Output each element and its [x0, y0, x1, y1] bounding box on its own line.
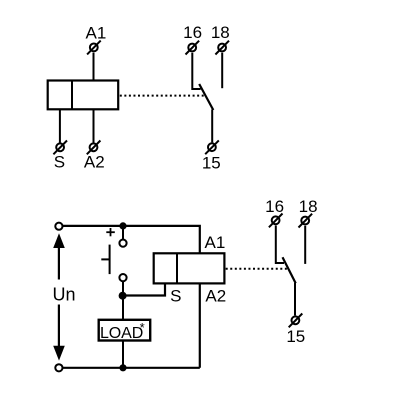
Un measurement line (upper + lower segments) [58, 239, 60, 280]
coil box divider [71, 81, 73, 110]
supply terminal (bottom-left, open circle) [55, 364, 62, 371]
supply terminal (top-left, open circle) [55, 223, 62, 230]
terminal A2 [87, 141, 101, 155]
junction dot (top rail) [119, 222, 126, 229]
relay coil box (bottom) [154, 253, 225, 283]
switch S lower contact [119, 274, 126, 281]
svg-text:LOAD: LOAD [100, 325, 143, 342]
wire A2 from coil box [93, 109, 95, 142]
wire 16 with tick (top) [192, 53, 200, 89]
wire 18 (top) [221, 53, 223, 88]
terminal 15 (top) [205, 140, 219, 154]
svg-text:A2: A2 [205, 287, 226, 306]
top rail wire [63, 226, 200, 253]
wire LOAD to bottom rail [122, 341, 124, 368]
terminal 16 (top) [186, 41, 200, 55]
terminal 18 (top) [215, 41, 229, 55]
wire S from coil box [59, 109, 61, 142]
contact blade (top) [199, 84, 213, 110]
wire 15 (bottom) [294, 283, 296, 316]
terminal 16 (bottom) [269, 214, 283, 228]
svg-text:15: 15 [202, 153, 221, 172]
terminal 18 (bottom) [299, 214, 313, 228]
svg-text:A1: A1 [86, 23, 107, 42]
switch S blade [109, 245, 111, 275]
coupling dotted line (top) [120, 95, 205, 97]
svg-text:*: * [140, 320, 145, 335]
bottom rail wire [63, 367, 200, 369]
Un arrowhead down [53, 346, 65, 361]
svg-text:Un: Un [53, 285, 76, 305]
terminal 15 (bottom) [289, 314, 303, 328]
svg-text:18: 18 [299, 197, 318, 216]
relay coil box (top) [48, 81, 119, 110]
Un arrowhead up [53, 233, 65, 248]
wire 15 (top) [211, 110, 213, 143]
junction dot (S node) [119, 292, 127, 300]
terminal S [53, 141, 67, 155]
svg-text:16: 16 [183, 23, 202, 42]
svg-text:A2: A2 [84, 153, 105, 172]
coil box divider (bottom) [176, 253, 178, 283]
switch S upper contact [119, 240, 126, 247]
wire 16 with tick (bottom) [276, 226, 284, 264]
svg-text:S: S [54, 153, 65, 172]
plus polarity mark [106, 228, 115, 236]
wire switch to S node [122, 282, 124, 296]
junction dot (bottom rail) [119, 364, 126, 371]
svg-text:15: 15 [286, 327, 305, 346]
wire S node to LOAD [122, 296, 124, 320]
terminal A1 [87, 41, 101, 55]
coupling dotted line (bottom) [226, 268, 288, 270]
contact blade (bottom) [283, 257, 296, 283]
svg-text:16: 16 [265, 197, 284, 216]
wire 18 (bottom) [304, 226, 306, 264]
switch S actuator [101, 258, 109, 260]
svg-text:18: 18 [211, 23, 230, 42]
svg-text:A1: A1 [205, 233, 226, 252]
svg-text:S: S [170, 287, 181, 306]
wire S node to relay S pin [123, 283, 165, 295]
wire A1 to coil box [93, 53, 95, 81]
wire A2 to bottom rail [199, 283, 201, 367]
LOAD box [99, 320, 151, 341]
wire junction to switch [122, 226, 124, 239]
